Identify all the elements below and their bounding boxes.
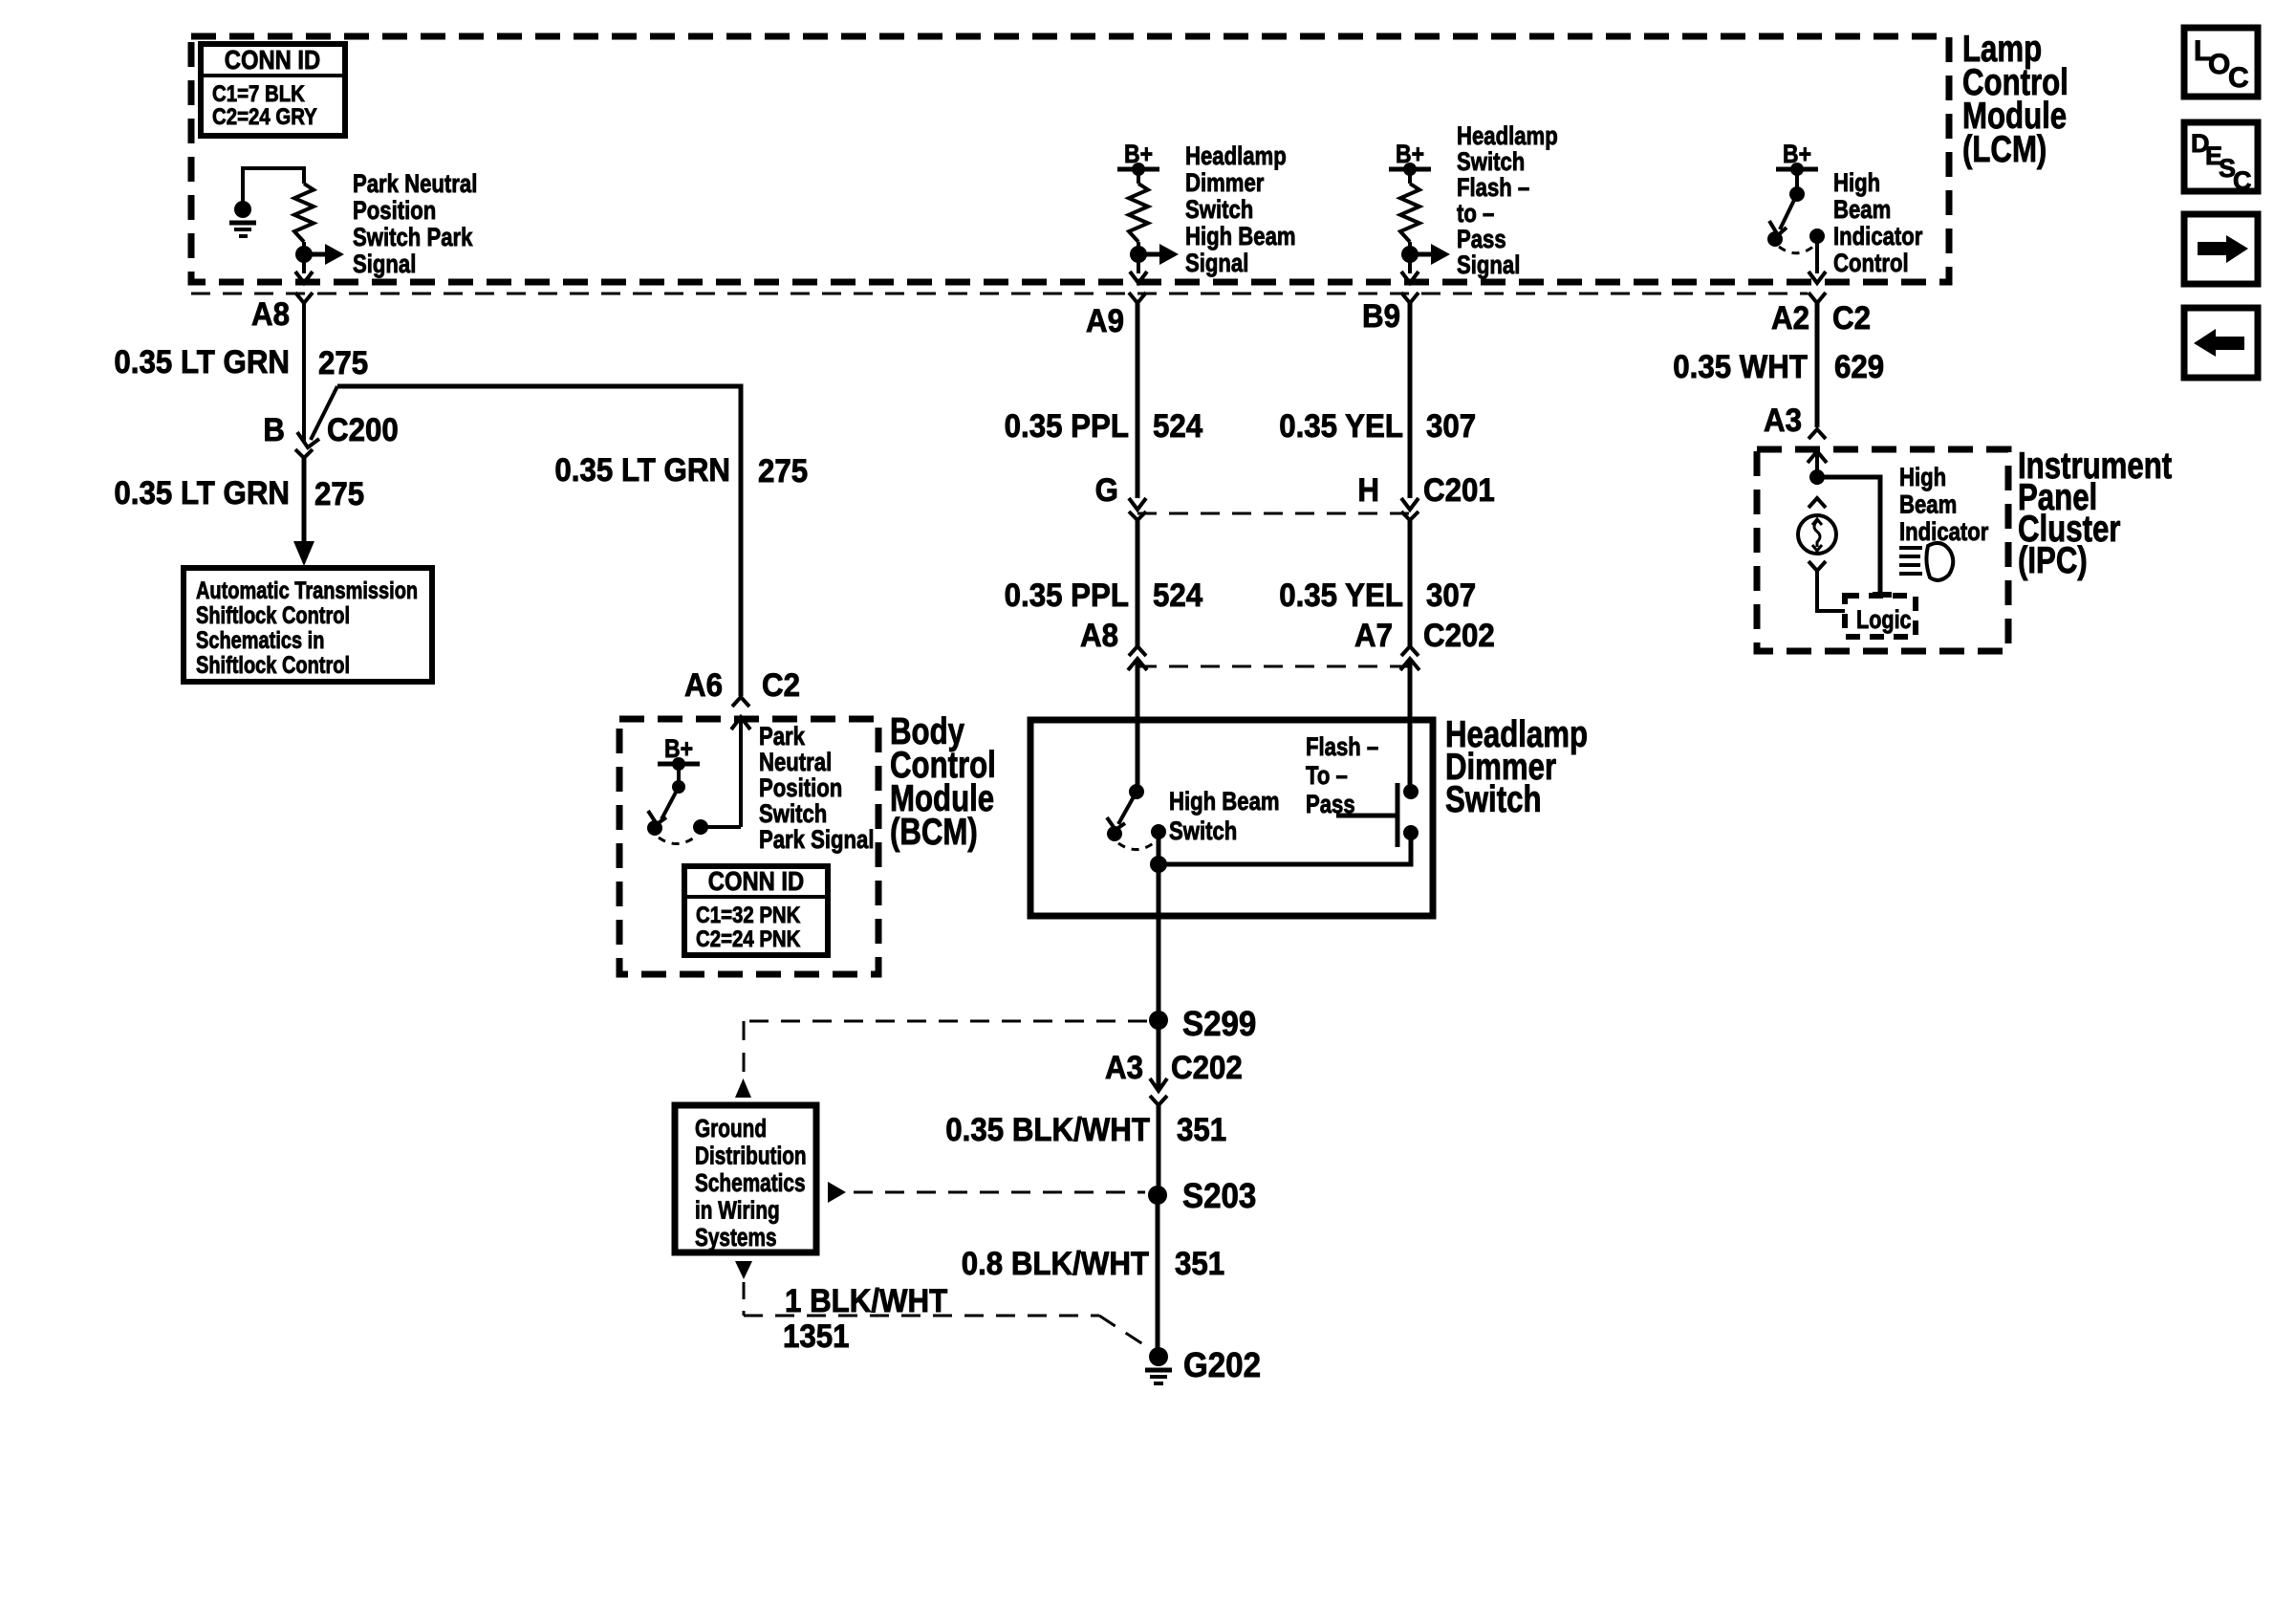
resistor: headlamp switch flash-to-pass signal — [1408, 169, 1412, 184]
switch arm with arrowhead — [1780, 194, 1797, 229]
splice S299 — [1149, 1011, 1168, 1030]
junction in IPC — [1809, 469, 1825, 485]
svg-text:Signal: Signal — [1457, 251, 1520, 280]
svg-text:Position: Position — [759, 774, 842, 803]
icon: LOC button — [2184, 28, 2258, 97]
svg-text:Flash –: Flash – — [1306, 733, 1378, 762]
wire to pin A8 with down arrow at LCM edge — [302, 254, 306, 273]
svg-text:Signal: Signal — [353, 250, 416, 279]
branch wire to BCM (0.35 LT GRN 275) — [337, 386, 741, 696]
wire 0.35 BLK/WHT 351 — [1157, 1105, 1161, 1195]
svg-text:C201: C201 — [1423, 471, 1495, 509]
wire to pin A9 with down arrow — [1137, 254, 1140, 273]
svg-text:H: H — [1357, 471, 1379, 509]
svg-text:0.35 PPL: 0.35 PPL — [1005, 577, 1129, 614]
svg-text:To –: To – — [1306, 762, 1348, 791]
svg-text:High: High — [1833, 169, 1880, 198]
Body Control Module (BCM) dashed box — [619, 719, 878, 974]
arrow: flash-to-pass signal output — [1410, 252, 1434, 257]
wire into IPC with up arrow — [1808, 451, 1827, 463]
svg-text:Automatic Transmission: Automatic Transmission — [196, 577, 418, 604]
svg-text:Switch: Switch — [1457, 148, 1525, 177]
svg-text:Headlamp: Headlamp — [1185, 142, 1287, 171]
junction node A9 — [1137, 242, 1140, 254]
bulb connector chevron — [1809, 498, 1826, 508]
wire to pin B9 with down arrow — [1408, 254, 1412, 273]
svg-text:in Wiring: in Wiring — [695, 1196, 780, 1224]
svg-text:G202: G202 — [1183, 1347, 1261, 1385]
svg-text:C2: C2 — [762, 666, 800, 704]
svg-text:C200: C200 — [327, 411, 399, 448]
harness connector face dashed line below LCM — [191, 293, 1808, 295]
bulb lower chevron — [1809, 561, 1826, 571]
svg-text:Shiftlock Control: Shiftlock Control — [196, 602, 350, 629]
arrowhead down from ground box — [735, 1261, 752, 1279]
high beam switch arm — [1118, 792, 1137, 824]
wire to logic input — [1817, 477, 1880, 592]
svg-text:Switch: Switch — [1185, 196, 1253, 225]
high beam indicator bulb — [1798, 515, 1836, 554]
Lamp Control Module (LCM) dashed box — [191, 36, 1949, 282]
switch: park neutral position switch (BCM) — [677, 764, 681, 787]
svg-text:(IPC): (IPC) — [2018, 540, 2088, 581]
ground (chassis) inside LCM — [241, 168, 245, 202]
icon: next arrow button — [2184, 214, 2258, 284]
wire A8 down (0.35 LT GRN 275) — [302, 303, 306, 442]
svg-text:Beam: Beam — [1899, 491, 1957, 520]
svg-text:CONN ID: CONN ID — [708, 865, 804, 896]
svg-text:Switch: Switch — [1445, 779, 1541, 820]
wire 0.8 BLK/WHT 351 — [1156, 1195, 1160, 1351]
svg-text:0.8 BLK/WHT: 0.8 BLK/WHT — [962, 1245, 1149, 1282]
svg-text:1351: 1351 — [783, 1317, 850, 1355]
svg-text:Position: Position — [353, 197, 436, 226]
arrowhead up toward S299 path — [735, 1078, 751, 1098]
svg-text:Switch Park: Switch Park — [353, 224, 473, 252]
svg-text:High Beam: High Beam — [1185, 223, 1296, 251]
resistor: park neutral position switch pull-up — [302, 166, 306, 184]
svg-text:B9: B9 — [1362, 297, 1400, 335]
svg-text:Distribution: Distribution — [695, 1142, 807, 1169]
svg-text:Pass: Pass — [1457, 226, 1506, 254]
svg-text:A6: A6 — [684, 666, 723, 704]
arrow: high beam signal output — [1138, 252, 1162, 257]
dashed travel arc (BCM switch) — [659, 836, 697, 844]
svg-text:A8: A8 — [1080, 617, 1118, 654]
svg-text:0.35 LT GRN: 0.35 LT GRN — [114, 343, 290, 381]
svg-text:Park Neutral: Park Neutral — [353, 170, 477, 199]
junction in dimmer switch — [1150, 856, 1167, 873]
svg-text:1 BLK/WHT: 1 BLK/WHT — [785, 1282, 947, 1319]
svg-text:A3: A3 — [1764, 402, 1802, 439]
svg-text:CONN ID: CONN ID — [225, 44, 320, 75]
svg-text:0.35 BLK/WHT: 0.35 BLK/WHT — [945, 1111, 1150, 1148]
wire bulb to logic — [1817, 571, 1845, 611]
svg-text:(LCM): (LCM) — [1962, 129, 2047, 170]
svg-text:0.35 YEL: 0.35 YEL — [1279, 577, 1403, 614]
svg-text:Schematics in: Schematics in — [196, 627, 324, 654]
svg-text:C2=24 PNK: C2=24 PNK — [696, 925, 800, 951]
svg-text:G: G — [1095, 471, 1118, 509]
ground G202 — [1149, 1347, 1168, 1366]
junction: park neutral signal node — [302, 242, 306, 254]
svg-text:A2: A2 — [1771, 299, 1809, 337]
arrow: park neutral position switch park signal output — [304, 252, 328, 257]
junction node B9 — [1408, 242, 1412, 254]
svg-text:Park Signal: Park Signal — [759, 826, 875, 855]
reference box: Automatic Transmission Shiftlock Control — [184, 568, 432, 682]
svg-text:Neutral: Neutral — [759, 749, 832, 777]
svg-text:0.35 LT GRN: 0.35 LT GRN — [114, 474, 290, 512]
svg-text:Signal: Signal — [1185, 250, 1248, 278]
wire: flash contact to common junction — [1159, 833, 1411, 864]
svg-text:B: B — [263, 411, 285, 448]
dashed 1 BLK/WHT 1351 path to G202 — [743, 1282, 746, 1316]
LCM CONN ID table — [201, 44, 345, 136]
branch tap diagonal with arrowhead onto A8 wire — [311, 386, 337, 440]
svg-text:Indicator: Indicator — [1833, 223, 1923, 251]
svg-text:Park: Park — [759, 723, 805, 751]
switch: high beam indicator control driver — [1795, 169, 1799, 194]
svg-text:524: 524 — [1153, 407, 1202, 445]
svg-text:High Beam: High Beam — [1169, 788, 1280, 816]
svg-text:351: 351 — [1177, 1111, 1226, 1148]
svg-text:629: 629 — [1834, 348, 1884, 385]
wire below C201 (0.35 PPL 524 lower) — [1136, 520, 1140, 646]
svg-text:O: O — [2208, 49, 2230, 80]
svg-text:0.35 LT GRN: 0.35 LT GRN — [554, 451, 730, 489]
Instrument Panel Cluster (IPC) dashed box — [1757, 449, 2008, 651]
svg-text:307: 307 — [1426, 577, 1476, 614]
svg-text:High: High — [1899, 464, 1946, 492]
svg-text:Headlamp: Headlamp — [1457, 122, 1558, 151]
svg-text:C202: C202 — [1171, 1049, 1243, 1086]
wire to park/neutral switch contact — [704, 825, 741, 829]
C200 connector chevron — [295, 449, 313, 458]
icon: back arrow button — [2184, 308, 2258, 378]
svg-text:351: 351 — [1175, 1245, 1224, 1282]
switch output wire down to S299 — [1157, 864, 1161, 1020]
wire into headlamp dimmer switch — [1136, 659, 1140, 792]
svg-text:C: C — [2228, 62, 2249, 94]
svg-text:C: C — [2233, 166, 2252, 195]
svg-text:0.35 YEL: 0.35 YEL — [1279, 407, 1403, 445]
svg-text:275: 275 — [318, 344, 368, 381]
svg-text:C202: C202 — [1423, 617, 1495, 654]
svg-text:Control: Control — [1833, 250, 1909, 278]
wire into BCM with up arrow — [731, 717, 750, 729]
switch throw contact — [1809, 229, 1825, 244]
svg-text:A8: A8 — [251, 295, 290, 333]
svg-text:S299: S299 — [1182, 1006, 1256, 1044]
splice S203 — [1148, 1186, 1167, 1205]
svg-text:524: 524 — [1153, 577, 1202, 614]
wire 0.35 WHT 629 — [1815, 303, 1820, 427]
flash-to-pass upper contact — [1403, 784, 1419, 799]
wire below C201 (0.35 YEL 307 lower) — [1408, 520, 1413, 646]
svg-text:Switch: Switch — [759, 800, 827, 829]
svg-text:Switch: Switch — [1169, 817, 1237, 846]
svg-text:S203: S203 — [1182, 1178, 1256, 1216]
svg-text:C2=24 GRY: C2=24 GRY — [212, 103, 317, 129]
svg-text:Systems: Systems — [695, 1224, 777, 1252]
icon: DESC button — [2184, 122, 2258, 191]
wire to pin A2 with down arrow — [1815, 236, 1819, 273]
svg-text:C2: C2 — [1832, 299, 1871, 337]
wire B9 down (0.35 YEL 307 upper) — [1408, 303, 1413, 498]
flash-to-pass lower contact — [1403, 825, 1419, 840]
solid arrow into shiftlock reference box — [293, 541, 314, 566]
dashed line S203 to ground distribution reference — [828, 1182, 846, 1203]
svg-text:275: 275 — [314, 475, 364, 512]
Logic box — [1845, 596, 1916, 637]
wire into headlamp dimmer switch (flash to pass) — [1408, 659, 1413, 792]
C201 connector dashed line — [1137, 512, 1410, 515]
resistor: headlamp dimmer switch high beam signal — [1137, 169, 1140, 184]
svg-text:Beam: Beam — [1833, 196, 1891, 225]
dashed travel arc (high beam switch) — [1118, 841, 1156, 850]
svg-text:C1=7 BLK: C1=7 BLK — [212, 80, 305, 106]
reference box: Ground Distribution Schematics in Wiring Systems — [675, 1105, 816, 1252]
pin A8 connector chevron (LCM C2) — [295, 293, 313, 303]
svg-text:0.35 PPL: 0.35 PPL — [1005, 407, 1129, 445]
C202 connector dashed line — [1137, 665, 1410, 668]
high beam indicator icon — [1899, 546, 1922, 550]
svg-text:Schematics: Schematics — [695, 1169, 806, 1197]
flash-to-pass plunger — [1396, 783, 1400, 847]
wire A9 down (0.35 PPL 524 upper) — [1136, 303, 1140, 498]
high beam switch contact (from A9) — [1129, 784, 1144, 799]
svg-text:A9: A9 — [1086, 302, 1124, 339]
svg-text:Shiftlock Control: Shiftlock Control — [196, 652, 350, 679]
pin A9 connector chevron — [1129, 293, 1146, 303]
pin A2 connector chevron (LCM C2) — [1809, 293, 1826, 303]
svg-text:to –: to – — [1457, 200, 1494, 229]
dashed line S299 to ground distribution reference — [749, 1020, 1147, 1023]
svg-text:A3: A3 — [1105, 1049, 1143, 1086]
svg-text:Flash –: Flash – — [1457, 174, 1529, 203]
svg-text:307: 307 — [1426, 407, 1476, 445]
pin B9 connector chevron — [1401, 293, 1419, 303]
svg-text:A7: A7 — [1354, 617, 1393, 654]
svg-text:0.35 WHT: 0.35 WHT — [1673, 348, 1808, 385]
svg-text:(BCM): (BCM) — [890, 812, 978, 853]
svg-text:Logic: Logic — [1856, 606, 1912, 635]
svg-text:Ground: Ground — [695, 1115, 767, 1143]
Headlamp Dimmer Switch box — [1030, 720, 1433, 916]
dashed travel arc — [1779, 246, 1814, 253]
switch common throw — [1151, 824, 1166, 839]
svg-text:Dimmer: Dimmer — [1185, 169, 1265, 198]
wire below C200 (0.35 LT GRN 275) — [302, 458, 307, 547]
wire ground to resistor R park-neutral — [241, 166, 306, 170]
svg-text:275: 275 — [758, 452, 808, 490]
svg-text:C1=32 PNK: C1=32 PNK — [696, 902, 800, 927]
BCM CONN ID table — [684, 866, 828, 955]
svg-text:Indicator: Indicator — [1899, 518, 1989, 547]
